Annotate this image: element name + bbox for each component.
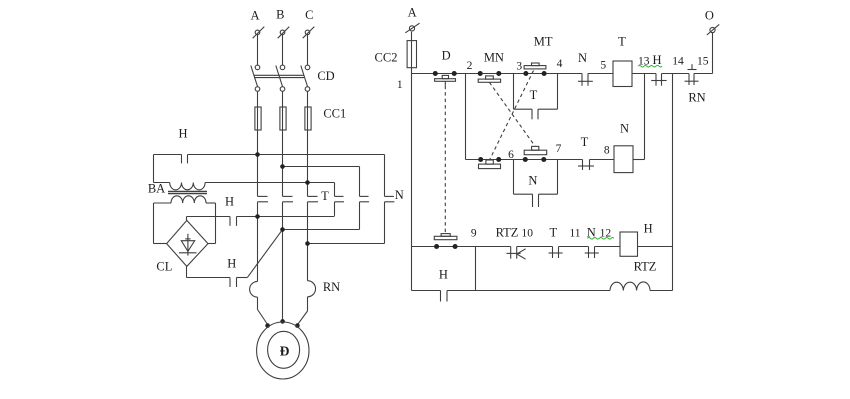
- svg-text:N: N: [395, 188, 404, 202]
- svg-text:N: N: [620, 122, 629, 136]
- svg-text:RN: RN: [323, 280, 340, 294]
- svg-text:3: 3: [516, 60, 522, 72]
- svg-text:H: H: [227, 256, 236, 270]
- svg-text:9: 9: [471, 227, 477, 239]
- svg-text:CC2: CC2: [375, 51, 398, 65]
- svg-text:Đ: Đ: [280, 343, 290, 358]
- svg-text:CC1: CC1: [323, 107, 346, 121]
- svg-text:N: N: [528, 173, 537, 187]
- svg-text:MT: MT: [534, 35, 553, 49]
- svg-text:14: 14: [672, 56, 684, 68]
- svg-text:5: 5: [600, 59, 606, 71]
- svg-text:15: 15: [697, 56, 709, 68]
- svg-text:4: 4: [557, 58, 563, 70]
- svg-text:T: T: [530, 88, 538, 102]
- svg-text:T: T: [321, 189, 329, 203]
- svg-text:T: T: [549, 225, 557, 239]
- svg-text:T: T: [581, 135, 589, 149]
- svg-text:10: 10: [522, 227, 534, 239]
- svg-text:A: A: [408, 6, 417, 20]
- svg-text:MN: MN: [484, 51, 504, 65]
- svg-text:11: 11: [569, 227, 580, 239]
- svg-text:T: T: [618, 35, 626, 49]
- svg-text:A: A: [250, 9, 259, 23]
- svg-text:RTZ: RTZ: [634, 260, 657, 274]
- svg-text:N: N: [578, 51, 587, 65]
- svg-text:H: H: [644, 221, 653, 235]
- svg-text:O: O: [705, 9, 714, 23]
- svg-text:RN: RN: [688, 91, 705, 105]
- svg-text:H: H: [439, 268, 448, 282]
- svg-text:B: B: [276, 8, 284, 22]
- svg-text:1: 1: [397, 79, 403, 91]
- svg-text:CL: CL: [156, 260, 172, 274]
- svg-text:H: H: [178, 127, 187, 141]
- svg-text:CD: CD: [317, 69, 334, 83]
- svg-text:C: C: [305, 8, 313, 22]
- svg-text:7: 7: [556, 143, 562, 155]
- svg-text:D: D: [442, 48, 451, 62]
- svg-text:6: 6: [508, 149, 514, 161]
- svg-text:RTZ: RTZ: [496, 225, 519, 239]
- svg-text:8: 8: [604, 145, 610, 157]
- svg-text:BA: BA: [148, 182, 165, 196]
- svg-text:H: H: [225, 194, 234, 208]
- svg-text:H: H: [652, 53, 661, 67]
- svg-text:2: 2: [467, 60, 473, 72]
